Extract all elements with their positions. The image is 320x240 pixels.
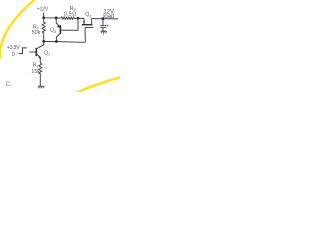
node +12V rail junction (42, 16, 45, 19)
label R5 value 0.5ohm (64, 6, 77, 17)
svg-text:+12V: +12V (37, 6, 49, 12)
yellow highlight oval annotation (lower-right arc) (72, 76, 124, 94)
wire top rail left segment (44, 17, 61, 19)
wire +12V lead (43, 13, 45, 18)
label Q2 (85, 12, 91, 18)
label 12V load (103, 8, 115, 19)
transistor Q2 (P-channel pass) (82, 18, 118, 42)
label R2 (32, 24, 41, 36)
node Q3 collector junction (55, 40, 58, 43)
label Q1 (44, 50, 50, 56)
label C. figure part (6, 81, 13, 88)
node load/cap junction (102, 17, 105, 20)
resistor R5 (61, 17, 84, 20)
svg-text:+3.3V: +3.3V (7, 45, 20, 51)
input step waveform symbol (19, 48, 27, 54)
label +3.3V input levels (7, 45, 20, 58)
ground under R1 (38, 86, 45, 88)
capacitor (polarized) (100, 19, 106, 31)
svg-text:50k: 50k (32, 30, 41, 36)
label R1 value 15k (31, 62, 40, 75)
svg-text:0.5Ω: 0.5Ω (64, 11, 77, 17)
transistor Q3 (PNP) (56, 18, 78, 41)
node Q3 emitter junction (55, 17, 58, 20)
svg-text:Q2: Q2 (85, 12, 91, 18)
label +12V supply (37, 6, 49, 12)
svg-text:15k: 15k (31, 69, 40, 75)
yellow highlight oval annotation (upper-left arc) (0, 0, 37, 59)
svg-text:Q3: Q3 (50, 28, 56, 34)
svg-text:R1: R1 (33, 62, 39, 68)
resistor R2 (42, 18, 45, 42)
transistor Q1 (NPN) (36, 41, 43, 63)
svg-text:Q1: Q1 (44, 50, 50, 56)
ground under capacitor (100, 31, 107, 35)
node R5 right / Q3 base junction (77, 17, 80, 20)
label capacitor plus polarity (107, 25, 109, 27)
label Q3 (50, 28, 56, 34)
svg-text:0: 0 (12, 52, 15, 58)
wire base node line (Q1 collector to Q2 gate) (44, 40, 86, 43)
wire input to Q1 base (30, 51, 37, 53)
resistor R1 (39, 63, 42, 86)
svg-text:C.: C. (6, 81, 13, 88)
node R2 bottom / Q1 collector junction (42, 40, 45, 43)
svg-text:load: load (103, 13, 115, 20)
